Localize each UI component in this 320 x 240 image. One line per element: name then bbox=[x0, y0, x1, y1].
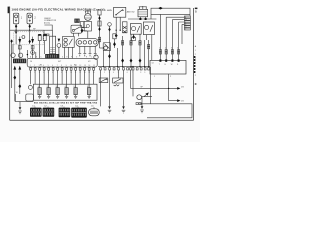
svg-text:11: 11 bbox=[75, 72, 77, 74]
arrow up right bbox=[145, 92, 148, 95]
svg-text:2: 2 bbox=[165, 48, 166, 50]
left signal wire B bbox=[32, 45, 34, 59]
nested wire 3 bbox=[172, 20, 184, 61]
mid diamond M3 bbox=[139, 58, 142, 62]
border frame left bbox=[9, 7, 11, 121]
solenoid resistor relay box bbox=[103, 43, 110, 51]
rotor circle 2 bbox=[83, 41, 86, 44]
spark plug wire 1 bbox=[78, 46, 81, 56]
data wire horizontal bbox=[131, 87, 178, 89]
sensor ground wire extra bbox=[123, 70, 125, 106]
inline connector pair R2 bbox=[165, 50, 167, 54]
svg-text:12: 12 bbox=[79, 72, 81, 74]
svg-text:14: 14 bbox=[89, 65, 91, 67]
svg-text:13: 13 bbox=[84, 72, 86, 74]
check connector label text bbox=[44, 18, 57, 24]
junction dot T1 bbox=[15, 30, 16, 31]
ECM main box bbox=[27, 58, 97, 67]
ring terminal G1 bbox=[11, 53, 15, 57]
svg-text:F: F bbox=[71, 57, 72, 59]
solenoid arm bbox=[104, 44, 109, 49]
wire horizontal coil bus bbox=[10, 29, 44, 31]
VSV diamond bbox=[113, 42, 116, 46]
wire switch to pump lower bbox=[82, 30, 87, 32]
arrow to DLC upper bbox=[177, 87, 180, 90]
svg-text:AM2 IG2: AM2 IG2 bbox=[127, 11, 136, 14]
VSV component body bbox=[113, 34, 116, 39]
ignition switch arrow bbox=[122, 9, 124, 11]
mid column wire M1 bbox=[122, 36, 124, 67]
wire C2 down bbox=[19, 70, 21, 94]
svg-text:2: 2 bbox=[104, 72, 105, 74]
wire coil T1 down bbox=[15, 24, 17, 30]
svg-text:9: 9 bbox=[66, 65, 67, 67]
data wire junction bbox=[168, 88, 169, 89]
ignition switch arm bbox=[116, 10, 123, 15]
top feed bus bbox=[128, 18, 156, 20]
junction dot sw2 bbox=[120, 30, 121, 31]
igniter box bbox=[50, 36, 56, 54]
ECM bottom pin row bbox=[30, 68, 95, 70]
wire battery right down bbox=[145, 17, 147, 19]
injector 2 bbox=[47, 88, 50, 95]
ign feed diamond bbox=[108, 28, 110, 32]
vacuum switch drop 2 bbox=[77, 33, 79, 36]
svg-text:(DLC1): (DLC1) bbox=[44, 22, 50, 24]
connector arrow up C1 bbox=[13, 66, 16, 70]
sensor wire S3 bbox=[118, 70, 120, 78]
nested wire 2 bbox=[166, 17, 184, 60]
ISC drop wire 3 bbox=[72, 47, 74, 58]
right margin dot bbox=[195, 83, 197, 84]
fuel pump body bbox=[85, 14, 92, 21]
ISC contact bbox=[69, 39, 72, 45]
wire into distributor bbox=[15, 30, 17, 31]
ignition switch box bbox=[114, 7, 126, 17]
ground arrow bottom left bbox=[19, 107, 22, 110]
shield connector triangle B bbox=[31, 39, 34, 44]
right edge tick B bbox=[195, 8, 198, 10]
ground lead bottom left bbox=[19, 102, 21, 108]
svg-text:1: 1 bbox=[159, 48, 160, 50]
mid column wire M2 bbox=[130, 34, 132, 66]
nested wire 5 bbox=[182, 24, 184, 44]
inline connector pair M1 bbox=[122, 41, 124, 45]
right margin text rows bbox=[195, 50, 196, 64]
pickup coil symbol bbox=[22, 36, 25, 39]
sensor ring on rail box bbox=[28, 85, 32, 89]
right ECU box bbox=[150, 60, 186, 74]
svg-text:7: 7 bbox=[57, 65, 58, 67]
svg-text:6: 6 bbox=[52, 72, 53, 74]
mid left vertical x36 bbox=[35, 52, 37, 58]
wire battery left down bbox=[139, 17, 141, 19]
connector arrow up C2 bbox=[18, 66, 21, 70]
wire switch down bbox=[115, 17, 117, 34]
right ECU pins bbox=[159, 59, 179, 61]
battery crown bbox=[139, 6, 147, 9]
mid bus junction dots bbox=[103, 66, 150, 67]
VF elbow wire bbox=[130, 70, 132, 88]
junction dot sw1 bbox=[116, 30, 117, 31]
transistor ring bbox=[57, 44, 61, 48]
fuel pump base circle bbox=[86, 24, 89, 27]
diag feed diamond lower bbox=[98, 27, 100, 31]
EFI main relay box bbox=[143, 22, 154, 35]
EFI relay contact bbox=[150, 25, 153, 32]
O2 ground wire bbox=[141, 97, 143, 107]
left margin wire bbox=[11, 40, 13, 88]
circuit opening relay box bbox=[130, 24, 141, 35]
right connector stack bbox=[184, 16, 190, 30]
water temp sensor zigzag bbox=[114, 85, 120, 86]
concentric sensor inner bbox=[32, 52, 33, 53]
svg-text:3: 3 bbox=[39, 65, 40, 67]
svg-text:3: 3 bbox=[39, 72, 40, 74]
svg-text:W: W bbox=[171, 64, 173, 66]
ignition coil T1 bbox=[13, 13, 18, 24]
svg-text:10: 10 bbox=[70, 72, 72, 74]
ECM internal speck row bbox=[30, 65, 95, 67]
solenoid coil circle bbox=[104, 46, 108, 50]
ISC coil bbox=[64, 38, 67, 41]
fuel pump base box bbox=[84, 21, 91, 31]
svg-text:E: E bbox=[67, 57, 68, 59]
mid diamond M2 bbox=[130, 58, 133, 62]
check wire elbow bbox=[44, 25, 52, 30]
wire coil2 into distributor bbox=[29, 30, 31, 44]
svg-text:4: 4 bbox=[113, 72, 114, 74]
wire switch down2 bbox=[119, 17, 121, 30]
mid column wire M4 bbox=[148, 40, 150, 67]
connector oval C5 bbox=[89, 109, 100, 116]
stack pin texts bbox=[185, 17, 187, 31]
connector block C2 bbox=[43, 108, 55, 117]
svg-text:B: B bbox=[195, 10, 197, 14]
svg-text:B: B bbox=[36, 57, 37, 59]
spark plug wire 2 bbox=[83, 46, 86, 56]
cowl sub box bbox=[26, 94, 34, 101]
fuse element X2 bbox=[123, 26, 126, 29]
throttle sensor arrowhead bbox=[106, 78, 108, 80]
svg-text:15: 15 bbox=[93, 65, 95, 67]
svg-text:9: 9 bbox=[66, 72, 67, 74]
DLC mini connector slits bbox=[76, 19, 79, 21]
page index marker 1 bbox=[8, 7, 10, 14]
ignition switch contact dot bbox=[115, 14, 116, 15]
connector block C3 bbox=[59, 108, 71, 118]
svg-text:5: 5 bbox=[48, 65, 49, 67]
svg-text:E01 E02 No.10 No.20 STA E1 IGT: E01 E02 No.10 No.20 STA E1 IGT IGF THW T… bbox=[34, 101, 97, 104]
injector 3 bbox=[56, 88, 59, 95]
wire coil T2 down bbox=[29, 24, 31, 30]
connector diamond below T1 bbox=[15, 24, 17, 28]
COR coil bbox=[132, 27, 136, 31]
cowl side box bbox=[15, 94, 33, 102]
oxygen sensor wire bbox=[142, 96, 152, 98]
extra mid wires bbox=[110, 26, 145, 66]
spark plug wire 3 bbox=[89, 46, 92, 56]
top bus loop bbox=[151, 8, 190, 19]
connector block C4 bbox=[71, 108, 87, 118]
mid left vertical x27 bbox=[26, 50, 28, 58]
fuse element X1 bbox=[123, 30, 126, 33]
wire from coil bus to igniter bbox=[43, 30, 45, 36]
shield connector box B bbox=[31, 46, 34, 49]
border frame right bbox=[193, 8, 195, 120]
EFI relay wires down bbox=[147, 35, 152, 61]
injector label specks bbox=[38, 86, 90, 88]
water temp sensor body bbox=[113, 78, 123, 83]
spark plug wire 4 bbox=[94, 46, 97, 56]
rotor circle 4 bbox=[94, 41, 97, 44]
left signal wire A2 bbox=[12, 44, 14, 48]
ground arrow S1 bbox=[122, 106, 126, 113]
vacuum switch box bbox=[71, 25, 82, 33]
ECM top connector block bbox=[45, 54, 59, 58]
svg-text:W: W bbox=[16, 92, 18, 94]
battery hatch bbox=[139, 11, 147, 15]
svg-text:1: 1 bbox=[30, 72, 31, 74]
svg-text:14: 14 bbox=[152, 63, 154, 65]
battery body bbox=[138, 9, 148, 16]
nested wire 4 bbox=[179, 22, 185, 60]
EFI relay coil bbox=[145, 25, 149, 29]
shield connector triangle A bbox=[18, 39, 21, 44]
shield connector box A bbox=[18, 46, 21, 49]
inline diamond C2 bbox=[18, 84, 21, 88]
top bus right bbox=[151, 13, 190, 15]
injector 4 bbox=[65, 88, 68, 95]
mid bus pin boxes bbox=[100, 68, 150, 70]
vacuum switch contact bbox=[72, 29, 74, 31]
wire transistor down bbox=[58, 47, 60, 58]
svg-text:2: 2 bbox=[34, 72, 35, 74]
svg-text:13: 13 bbox=[84, 65, 86, 67]
mid diamond M1 bbox=[121, 58, 124, 62]
ECM pin number specks bbox=[30, 72, 95, 74]
O2 ground strokes bbox=[140, 110, 144, 113]
injector 5 bbox=[74, 88, 77, 95]
connector label row bbox=[32, 105, 94, 107]
rotor circle 3 bbox=[88, 41, 91, 44]
inline connector pair M2 bbox=[130, 41, 132, 45]
injector 6 bbox=[87, 88, 90, 95]
ground strokes bottom left bbox=[18, 111, 22, 114]
svg-text:10: 10 bbox=[30, 61, 32, 63]
vacuum switch arm bbox=[74, 27, 79, 30]
svg-text:12: 12 bbox=[80, 65, 82, 67]
wire resistor A down bbox=[39, 41, 41, 59]
O2 ground arrow bbox=[141, 106, 144, 109]
svg-text:E1: E1 bbox=[40, 65, 42, 67]
resistor column A bbox=[38, 35, 41, 41]
connector diamond below T2 bbox=[29, 24, 31, 28]
inline connector pair R4 bbox=[178, 50, 180, 54]
svg-text:10: 10 bbox=[70, 65, 72, 67]
blob leader ticks bbox=[35, 107, 94, 109]
ignition coil T2 bbox=[27, 13, 32, 24]
injector grounds bbox=[38, 95, 91, 99]
inline connector pair mid bbox=[44, 34, 49, 36]
junction dot T2 bbox=[29, 30, 30, 31]
igniter divider bbox=[52, 36, 54, 54]
ign feed circle bbox=[108, 23, 112, 27]
vacuum switch drop 1 bbox=[72, 33, 74, 36]
concentric sensor outer bbox=[31, 51, 35, 55]
nested return vertical bbox=[150, 67, 152, 104]
igniter top wire bbox=[52, 30, 54, 36]
distributor cap oval bbox=[76, 38, 98, 46]
right ECU pin labels bbox=[159, 64, 179, 66]
wire pump down bbox=[87, 31, 89, 38]
fuel pump hatch bbox=[85, 16, 92, 19]
ECM internal pin labels bbox=[30, 61, 91, 67]
svg-text:5: 5 bbox=[48, 72, 49, 74]
svg-text:H: H bbox=[86, 57, 87, 59]
svg-text:4: 4 bbox=[43, 72, 44, 74]
VSV wire bbox=[114, 39, 116, 48]
junction square battery right bbox=[145, 18, 147, 20]
cold start injector crown bbox=[85, 10, 91, 13]
injector 1 bbox=[38, 88, 41, 95]
condenser symbol in distributor bbox=[15, 31, 18, 34]
right ECU down wire bbox=[169, 74, 178, 101]
svg-text:FL MAIN: FL MAIN bbox=[104, 9, 112, 12]
svg-text:7: 7 bbox=[57, 72, 58, 74]
mid bus pin labels bbox=[100, 72, 146, 74]
ground arrow S2 bbox=[108, 106, 112, 113]
COR diamond bbox=[132, 35, 135, 39]
svg-text:2: 2 bbox=[34, 65, 35, 67]
diag feed resistor top bbox=[98, 10, 101, 15]
svg-text:1: 1 bbox=[30, 65, 31, 67]
noise condenser ring bbox=[94, 55, 98, 59]
inline connector pair M4 bbox=[148, 44, 150, 48]
sensor wire S2 bbox=[109, 70, 111, 106]
diag feed diamond top bbox=[98, 16, 100, 20]
distributor dashed box bbox=[14, 32, 44, 45]
ISC drop wire 2 bbox=[68, 47, 70, 58]
wire C1 down bbox=[14, 70, 16, 102]
extra mid diamond bbox=[108, 54, 111, 58]
svg-text:8: 8 bbox=[61, 72, 62, 74]
junction square battery left bbox=[139, 18, 141, 20]
mid left dot x27 bbox=[27, 54, 28, 55]
throttle sensor body bbox=[99, 78, 108, 83]
mid bus line bbox=[98, 66, 150, 68]
resistor chain box bbox=[80, 22, 84, 28]
svg-text:4: 4 bbox=[43, 65, 44, 67]
sensor wire S4 bbox=[132, 70, 134, 96]
injector rail box bbox=[33, 84, 97, 100]
transistor arrow bbox=[58, 39, 61, 42]
wire G1 stem bbox=[12, 48, 14, 53]
svg-text:3: 3 bbox=[171, 48, 172, 50]
wire resistor B down bbox=[44, 41, 46, 54]
ECM top pin specks bbox=[30, 56, 92, 59]
svg-text:4: 4 bbox=[177, 48, 178, 50]
left signal wire B2 bbox=[32, 37, 34, 39]
resistor column B bbox=[43, 35, 46, 41]
check connector block left bbox=[13, 59, 26, 64]
inline connector pair M3 bbox=[139, 41, 141, 45]
svg-text:15: 15 bbox=[93, 72, 95, 74]
diag feed wire bbox=[99, 15, 101, 48]
ring terminal G2 bbox=[18, 53, 22, 57]
inline diamond C1 bbox=[13, 75, 16, 79]
ISC drop wire 1 bbox=[64, 47, 66, 58]
svg-text:8: 8 bbox=[61, 65, 62, 67]
border frame bottom bbox=[10, 119, 194, 121]
lower small connector pair bbox=[136, 103, 141, 105]
svg-text:6: 6 bbox=[127, 72, 128, 74]
svg-text:1: 1 bbox=[154, 76, 155, 78]
resistor chain diamond bbox=[81, 28, 84, 32]
rotor circle 1 bbox=[78, 41, 81, 44]
left signal wire A bbox=[19, 37, 21, 59]
svg-text:11: 11 bbox=[75, 65, 77, 67]
diag connector pair bbox=[98, 37, 100, 42]
relay small resistor bbox=[132, 37, 136, 40]
ISC coil lower bbox=[64, 43, 67, 46]
ECM top connector slits bbox=[47, 55, 57, 58]
wire coil bus to igniter bbox=[44, 29, 53, 31]
arrow to DLC lower bbox=[177, 99, 180, 102]
ECM pin wires down bbox=[31, 70, 94, 87]
svg-text:6: 6 bbox=[52, 65, 53, 67]
svg-text:14: 14 bbox=[88, 72, 90, 74]
oxygen sensor circle bbox=[137, 95, 142, 100]
right edge junction strip bbox=[194, 56, 196, 73]
nested return path bbox=[140, 104, 192, 118]
connector block C1 bbox=[30, 108, 42, 117]
COR contact bbox=[137, 26, 140, 32]
fuse box tall bbox=[122, 22, 127, 33]
inline connector pair R3 bbox=[171, 50, 173, 54]
DLC mini connector bbox=[74, 19, 79, 23]
top bus diamond bbox=[158, 7, 163, 10]
wire switch to pump bbox=[82, 27, 87, 29]
igniter internal hatch bbox=[50, 48, 55, 52]
bus extra dots bbox=[109, 66, 146, 67]
relay box ISC bbox=[63, 36, 75, 47]
check connector slits bbox=[15, 59, 25, 62]
arrow stem bbox=[144, 94, 147, 96]
svg-text:2: 2 bbox=[195, 54, 196, 56]
inline connector pair R1 bbox=[159, 50, 161, 54]
diamond below switch bbox=[115, 33, 118, 37]
mid column wire M3 bbox=[139, 34, 141, 66]
svg-text:1: 1 bbox=[195, 50, 196, 52]
COR wire down bbox=[133, 34, 135, 38]
solenoid wire down bbox=[102, 51, 104, 67]
diag feed resistor lower bbox=[98, 21, 101, 26]
nested wire 1 bbox=[159, 14, 161, 60]
sensor wire S1 bbox=[100, 70, 102, 106]
R column labels bbox=[159, 48, 178, 50]
distributor internal wire bbox=[15, 35, 17, 44]
left margin diamond bbox=[10, 39, 12, 43]
